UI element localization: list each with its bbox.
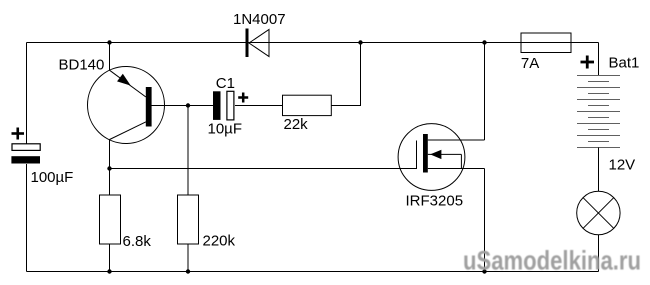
wire mosfet source to bottom rail	[484, 169, 486, 272]
wire bottom rail	[27, 271, 599, 273]
transistor BD140 (PNP)	[88, 67, 165, 144]
wire 6.8k to bottom rail	[109, 244, 111, 272]
wire transistor collector down	[109, 139, 111, 195]
svg-text:12V: 12V	[609, 157, 636, 174]
svg-text:C1: C1	[216, 75, 235, 92]
wire mosfet drain to top rail	[484, 43, 486, 141]
wire 22k to top rail	[331, 43, 360, 106]
lamp	[577, 191, 620, 234]
wire left rail lower	[26, 164, 28, 272]
wire battery to lamp	[598, 148, 600, 192]
battery Bat1 plus sign	[581, 56, 595, 69]
svg-text:uSamodelkina.ru: uSamodelkina.ru	[463, 246, 641, 276]
fuse 7A	[521, 33, 571, 53]
svg-text:IRF3205: IRF3205	[406, 193, 464, 210]
node base / C1 / 220k	[186, 103, 190, 107]
wire gate line to mosfet	[110, 141, 417, 169]
svg-text:7A: 7A	[521, 55, 539, 72]
svg-text:BD140: BD140	[59, 57, 105, 74]
node collector / gate wire	[107, 166, 111, 170]
node 220k / bottom rail	[186, 269, 190, 273]
node source / bottom rail	[482, 269, 486, 273]
capacitor 100uF (electrolytic)	[12, 144, 40, 151]
wire right rail top (to battery)	[598, 43, 600, 76]
node diode out / 22k	[358, 40, 362, 44]
node 6.8k / bottom rail	[107, 269, 111, 273]
svg-text:22k: 22k	[284, 116, 309, 133]
svg-text:100µF: 100µF	[31, 169, 74, 186]
node drain / top rail	[482, 40, 486, 44]
transistor IRF3205 (N-MOSFET)	[398, 124, 484, 191]
wire lamp to bottom rail	[598, 235, 600, 272]
wire 220k to bottom rail	[187, 244, 189, 272]
capacitor 100uF polarity plus sign	[12, 128, 25, 140]
wire left rail upper	[26, 43, 28, 145]
svg-text:1N4007: 1N4007	[233, 11, 286, 28]
resistor R 6.8k	[100, 195, 121, 244]
wire top rail	[27, 42, 599, 44]
svg-text:10µF: 10µF	[208, 121, 243, 138]
battery Bat1 cells	[577, 76, 620, 148]
resistor R 22k	[283, 95, 332, 115]
wire base to node	[151, 105, 213, 107]
node top rail / emitter	[107, 40, 111, 44]
diode 1N4007	[246, 29, 270, 58]
capacitor C1 plus sign	[238, 93, 248, 103]
capacitor C1 10uF	[213, 91, 234, 120]
svg-text:220k: 220k	[203, 233, 236, 250]
resistor R 220k	[178, 195, 199, 244]
svg-text:6.8k: 6.8k	[123, 233, 152, 250]
wire transistor emitter to top rail	[109, 43, 111, 71]
wire C1 to R 22k	[235, 105, 283, 107]
wire node down to 220k	[187, 106, 189, 196]
svg-text:Bat1: Bat1	[609, 55, 640, 72]
